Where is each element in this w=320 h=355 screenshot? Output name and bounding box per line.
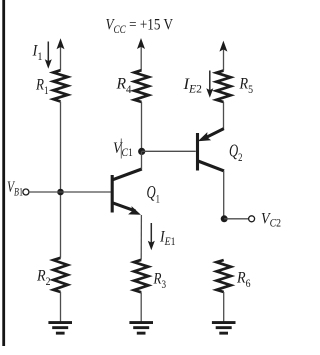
svg-text:R4: R4	[116, 76, 132, 97]
wire: R4 to node VC1	[141, 102, 143, 151]
svg-text:IE2: IE2	[182, 76, 202, 95]
wire: right supply rail with up arrow	[219, 41, 227, 71]
wire: VCC rail with up arrow	[137, 38, 145, 70]
wire: VB1 terminal to Q1 base	[29, 191, 111, 193]
svg-text:VC2: VC2	[261, 210, 281, 229]
svg-text:R2: R2	[36, 268, 50, 289]
resistor R5	[216, 71, 230, 102]
svg-text:R3: R3	[153, 271, 167, 292]
svg-text:R5: R5	[239, 76, 254, 97]
svg-text:Q2: Q2	[229, 141, 243, 165]
transistor Q2	[198, 129, 225, 171]
svg-text:VB1: VB1	[7, 179, 23, 198]
resistor R3	[134, 260, 148, 293]
wire: Q2 collector to node VC2	[223, 171, 225, 219]
current arrow I1	[45, 42, 52, 69]
terminal VC2 (open circle)	[249, 216, 255, 222]
svg-text:VC1: VC1	[113, 140, 133, 159]
svg-text:I1: I1	[32, 43, 43, 64]
svg-text:IE1: IE1	[159, 229, 175, 248]
node: VB1 junction dot	[57, 189, 64, 196]
current arrow IE2	[206, 71, 213, 98]
transistor Q1	[112, 151, 142, 215]
terminal VB1 (open circle)	[23, 189, 29, 195]
wire: left supply rail with up arrow	[57, 38, 65, 70]
wire: R6 to ground	[223, 292, 225, 322]
wire: Q1 emitter to R3	[140, 215, 142, 260]
wire: R3 to ground	[140, 292, 142, 322]
wire: node VC1 to Q2 base	[142, 150, 196, 152]
current arrow IE1	[148, 223, 155, 250]
resistor R6	[217, 260, 231, 292]
ground (right)	[212, 321, 236, 335]
svg-text:Q1: Q1	[147, 182, 161, 206]
ground (middle)	[129, 321, 153, 335]
stray scan tick	[120, 139, 122, 159]
svg-text:VCC = +15 V: VCC = +15 V	[106, 17, 174, 36]
resistor R1	[53, 70, 67, 101]
node VC1 (junction dot)	[138, 148, 145, 155]
svg-text:R6: R6	[236, 270, 251, 291]
resistor R4	[134, 70, 148, 102]
ground (left)	[48, 321, 72, 335]
wire: left rail R1 to R2	[60, 102, 62, 258]
resistor R2	[53, 258, 67, 292]
wire: node VC2 to terminal	[224, 218, 248, 220]
svg-text:R1: R1	[35, 76, 48, 97]
wire: R2 to ground	[60, 292, 62, 322]
wire: R5 to Q2 emitter	[223, 102, 225, 129]
node VC2 (junction dot)	[221, 215, 228, 222]
